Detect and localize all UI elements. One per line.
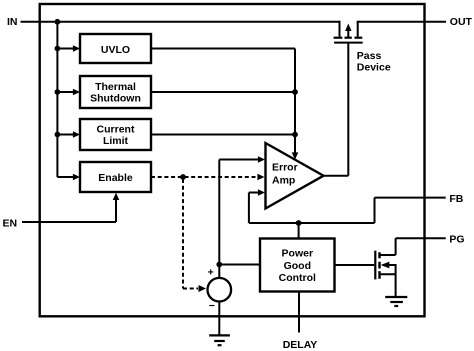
wire UVLO output: [151, 48, 295, 50]
wire EN pin to Enable bottom: [22, 193, 119, 222]
wire Current Limit output: [151, 134, 295, 136]
svg-text:FB: FB: [449, 193, 463, 205]
svg-text:Error: Error: [272, 162, 298, 174]
svg-text:Amp: Amp: [272, 174, 295, 186]
wire Error Amp output to pass gate: [324, 43, 349, 176]
wire reference to Error Amp input 1: [219, 156, 265, 163]
svg-text:DELAY: DELAY: [283, 339, 318, 351]
block Enable: [80, 162, 151, 192]
svg-text:Pass: Pass: [357, 50, 382, 62]
current source bandgap reference circle: [208, 278, 232, 302]
svg-text:PG: PG: [449, 234, 464, 246]
svg-text:Enable: Enable: [98, 172, 133, 184]
node FB / power-good junction: [296, 220, 302, 226]
transistor pass device (PMOS): [334, 21, 363, 43]
label Pass Device: [357, 50, 391, 74]
svg-text:EN: EN: [3, 217, 18, 229]
node bus-UVLO junction: [55, 46, 61, 52]
wire FB pin riser: [375, 198, 446, 223]
svg-text:Good: Good: [284, 260, 311, 272]
block UVLO: [80, 34, 151, 63]
wire PG pin: [396, 237, 446, 239]
wire FB junction to Power Good Control top: [298, 223, 300, 239]
svg-text:Power: Power: [282, 248, 314, 260]
wire bandgap to ground: [218, 302, 220, 335]
wire reference branch to Power Good Control: [219, 264, 261, 266]
block Power Good Control: [260, 239, 335, 292]
svg-text:OUT: OUT: [450, 16, 473, 28]
node current-limit/vertical junction: [292, 132, 298, 138]
wire input bus vertical: [56, 22, 58, 177]
wire dashed into bandgap circle: [183, 285, 206, 292]
svg-text:−: −: [209, 300, 215, 312]
block Current Limit: [80, 119, 151, 150]
svg-text:Limit: Limit: [103, 135, 129, 147]
wire FB horizontal: [249, 222, 375, 224]
wire Enable dashed to Error Amp input 2: [151, 174, 265, 181]
svg-text:UVLO: UVLO: [101, 44, 130, 56]
svg-text:Thermal: Thermal: [95, 81, 136, 93]
block Thermal Shutdown: [80, 76, 151, 108]
transistor PG open-drain (NMOS): [375, 238, 395, 296]
wire dashed vertical from enable junction: [182, 179, 184, 289]
IC outer boundary box: [40, 4, 425, 316]
wire bus to Enable input: [57, 174, 80, 181]
wire bus to Current Limit input: [57, 131, 80, 138]
wire reference vertical (bandgap to input 1): [218, 160, 220, 279]
node reference branch junction: [216, 262, 222, 268]
node bus-CurrentLimit junction: [55, 132, 61, 138]
wire bus to Thermal Shutdown input: [57, 89, 80, 96]
node IN rail / bus junction: [55, 19, 61, 25]
ground below bandgap: [209, 335, 230, 345]
svg-text:+: +: [208, 266, 214, 278]
ground below PG FET: [385, 297, 407, 306]
node thermal/vertical junction: [292, 89, 298, 95]
svg-text:Device: Device: [357, 62, 391, 74]
wire IN rail (left segment to pass device source): [21, 21, 341, 23]
wire OUT rail (pass device drain to OUT pin): [357, 21, 446, 23]
wire Thermal Shutdown output: [151, 91, 295, 93]
wire Power Good Control output to PG FET gate: [335, 264, 375, 266]
svg-text:Current: Current: [97, 124, 135, 136]
wire supervisor bus vertical to Error Amp top: [292, 49, 299, 160]
node bus-Thermal junction: [55, 89, 61, 95]
node dashed enable junction: [180, 174, 186, 180]
wire Power Good Control to DELAY pin: [298, 292, 300, 333]
svg-text:IN: IN: [7, 16, 18, 28]
wire FB loop to Error Amp input 3: [249, 189, 265, 223]
op-amp Error Amp: [266, 143, 324, 209]
wire bus to UVLO input: [57, 45, 80, 52]
svg-text:Control: Control: [279, 272, 316, 284]
svg-text:Shutdown: Shutdown: [90, 92, 141, 104]
